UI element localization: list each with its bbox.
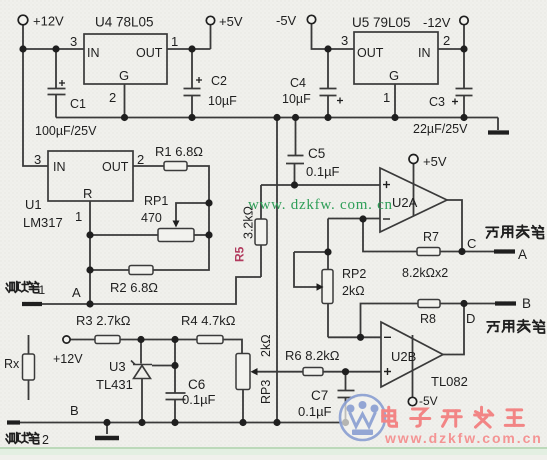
svg-text:0.1µF: 0.1µF (298, 404, 332, 419)
svg-text:C3: C3 (429, 95, 445, 109)
svg-text:2: 2 (109, 90, 116, 105)
svg-text:A: A (518, 247, 527, 262)
svg-text:+12V: +12V (53, 352, 83, 366)
svg-text:22µF/25V: 22µF/25V (413, 122, 468, 136)
svg-text:Rx: Rx (4, 357, 20, 371)
svg-text:RP2: RP2 (342, 267, 366, 281)
svg-text:RP1: RP1 (144, 194, 168, 208)
svg-text:-12V: -12V (423, 15, 451, 30)
svg-text:2kΩ: 2kΩ (342, 284, 365, 298)
svg-text:OUT: OUT (136, 46, 163, 60)
svg-text:C4: C4 (290, 76, 306, 90)
svg-text:R5: R5 (233, 246, 247, 262)
svg-text:2kΩ: 2kΩ (259, 334, 273, 357)
svg-text:3: 3 (70, 34, 77, 49)
svg-text:U4 78L05: U4 78L05 (95, 15, 154, 30)
svg-text:C5: C5 (308, 146, 325, 161)
svg-text:+12V: +12V (33, 14, 64, 29)
svg-text:100µF/25V: 100µF/25V (35, 124, 97, 138)
svg-text:C7: C7 (311, 388, 328, 403)
svg-text:D: D (466, 311, 475, 326)
svg-text:U1: U1 (25, 197, 42, 212)
svg-text:8.2kΩx2: 8.2kΩx2 (402, 266, 448, 280)
svg-text:C1: C1 (70, 97, 86, 111)
svg-text:1: 1 (75, 209, 82, 224)
svg-text:1: 1 (171, 34, 178, 49)
svg-text:1: 1 (383, 90, 390, 105)
svg-text:U2B: U2B (391, 349, 416, 364)
svg-text:www. dzkfw. com. cn: www. dzkfw. com. cn (248, 197, 393, 213)
svg-text:+5V: +5V (219, 14, 243, 29)
svg-text:3: 3 (34, 152, 41, 167)
svg-text:470: 470 (141, 211, 162, 225)
svg-text:2: 2 (42, 433, 49, 447)
svg-text:R7: R7 (423, 230, 439, 244)
svg-text:0.1µF: 0.1µF (306, 164, 340, 179)
svg-text:TL431: TL431 (96, 377, 133, 392)
svg-text:G: G (119, 68, 129, 83)
svg-text:U5 79L05: U5 79L05 (352, 15, 411, 30)
svg-text:R6 8.2kΩ: R6 8.2kΩ (285, 348, 340, 363)
svg-text:10µF: 10µF (208, 94, 237, 108)
svg-text:IN: IN (87, 46, 100, 60)
svg-text:RP3: RP3 (259, 380, 273, 404)
svg-text:A: A (72, 285, 81, 300)
svg-text:-5V: -5V (419, 394, 438, 408)
svg-text:IN: IN (418, 46, 431, 60)
svg-text:TL082: TL082 (431, 374, 468, 389)
svg-text:R8: R8 (420, 312, 436, 326)
svg-text:R2 6.8Ω: R2 6.8Ω (110, 280, 158, 295)
svg-text:R1 6.8Ω: R1 6.8Ω (155, 144, 203, 159)
svg-text:B: B (522, 296, 531, 311)
svg-text:OUT: OUT (357, 46, 384, 60)
svg-text:IN: IN (53, 160, 66, 174)
svg-text:1: 1 (39, 283, 46, 297)
svg-text:2: 2 (137, 152, 144, 167)
svg-text:R: R (83, 186, 92, 201)
svg-text:3: 3 (341, 33, 348, 48)
svg-text:OUT: OUT (102, 160, 129, 174)
svg-text:U2A: U2A (392, 195, 418, 210)
svg-text:C2: C2 (211, 74, 227, 88)
svg-text:-5V: -5V (276, 13, 297, 28)
svg-text:2: 2 (443, 33, 450, 48)
svg-text:LM317: LM317 (23, 215, 63, 230)
svg-text:+5V: +5V (423, 154, 447, 169)
svg-text:U3: U3 (109, 359, 126, 374)
svg-text:B: B (70, 403, 79, 418)
svg-text:R4 4.7kΩ: R4 4.7kΩ (181, 313, 236, 328)
svg-text:10µF: 10µF (282, 92, 311, 106)
svg-text:C6: C6 (188, 377, 205, 392)
svg-text:G: G (389, 68, 399, 83)
svg-text:R3 2.7kΩ: R3 2.7kΩ (76, 313, 131, 328)
svg-text:C: C (467, 236, 476, 251)
svg-text:0.1µF: 0.1µF (182, 392, 216, 407)
svg-text:www.dzkfw.com.cn: www.dzkfw.com.cn (384, 430, 543, 446)
